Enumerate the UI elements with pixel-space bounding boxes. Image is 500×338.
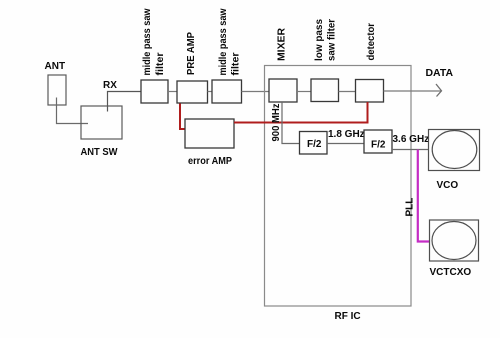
wire F/2 b to VCO xyxy=(392,149,429,151)
divider block F/2 b xyxy=(364,130,392,153)
svg-text:low pass: low pass xyxy=(314,19,325,61)
svg-text:error AMP: error AMP xyxy=(188,156,232,167)
wire F2 to MIXER xyxy=(242,91,270,93)
detector block xyxy=(356,80,384,103)
svg-text:DATA: DATA xyxy=(426,68,454,79)
svg-text:filter: filter xyxy=(155,52,166,75)
svg-text:900 MHz: 900 MHz xyxy=(271,104,282,142)
label midle pass saw filter (F2) xyxy=(218,8,242,75)
svg-text:1.8 GHz: 1.8 GHz xyxy=(328,129,365,140)
mixer block xyxy=(269,79,297,102)
svg-text:midle pass saw: midle pass saw xyxy=(218,8,229,75)
amplifier block PRE AMP xyxy=(177,81,208,103)
svg-text:3.6 GHz: 3.6 GHz xyxy=(393,134,430,145)
saw filter block F1 xyxy=(141,80,168,103)
label low pass saw filter xyxy=(314,19,338,61)
antenna block ANT xyxy=(48,75,66,105)
amplifier block error AMP xyxy=(185,119,234,148)
svg-text:ANT SW: ANT SW xyxy=(81,147,119,158)
svg-text:midle pass saw: midle pass saw xyxy=(142,8,153,75)
svg-text:F/2: F/2 xyxy=(307,139,322,150)
wire (magenta) PLL feedback VCO line to VCTCXO xyxy=(418,150,430,242)
wire (red) PRE AMP to error AMP xyxy=(180,104,185,130)
arrowhead DATA output xyxy=(436,84,442,97)
svg-text:PLL: PLL xyxy=(405,198,416,217)
wire F1 to PRE AMP xyxy=(168,91,177,93)
wire MIXER to divider F/2 a xyxy=(282,102,300,144)
svg-text:VCO: VCO xyxy=(437,180,459,191)
wire (red) error AMP to detector xyxy=(234,102,368,123)
RFIC block outline xyxy=(265,66,412,307)
wire MIXER to low pass filter xyxy=(297,91,311,93)
svg-text:RF IC: RF IC xyxy=(335,311,361,322)
svg-text:ANT: ANT xyxy=(45,61,66,72)
svg-text:RX: RX xyxy=(103,80,117,91)
svg-text:VCTCXO: VCTCXO xyxy=(430,267,472,278)
svg-text:PRE AMP: PRE AMP xyxy=(186,32,197,75)
oscillator block VCO xyxy=(429,130,480,171)
wire RX node to filter F1 xyxy=(108,92,142,112)
antenna switch block ANT SW xyxy=(81,106,122,139)
wire detector to DATA output xyxy=(384,90,442,92)
svg-text:filter: filter xyxy=(231,52,242,75)
wire low pass filter to detector xyxy=(339,91,356,93)
wire PRE AMP to filter F2 xyxy=(208,91,213,93)
svg-text:MIXER: MIXER xyxy=(277,27,288,61)
wire F/2 a to F/2 b xyxy=(327,143,364,145)
svg-text:saw filter: saw filter xyxy=(327,19,338,61)
wire ANT to ANT SW xyxy=(57,98,89,124)
divider block F/2 a xyxy=(300,132,328,155)
svg-text:detector: detector xyxy=(366,23,377,61)
oscillator block VCTCXO xyxy=(430,220,479,261)
svg-text:F/2: F/2 xyxy=(371,140,386,151)
saw filter block F2 xyxy=(212,80,242,103)
label midle pass saw filter (F1) xyxy=(142,8,166,75)
low pass saw filter block xyxy=(311,79,339,102)
